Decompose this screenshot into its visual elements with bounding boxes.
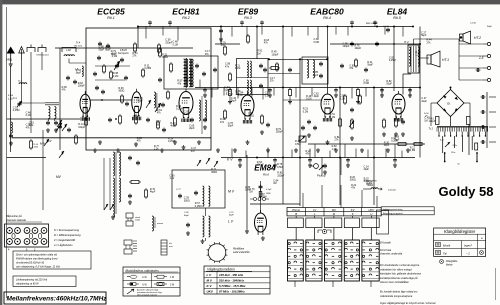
resistor R50b <box>271 67 278 70</box>
svg-text:motståll: motståll <box>388 189 396 192</box>
tube ECC85 triode a <box>80 94 90 113</box>
cap C22 <box>264 68 266 70</box>
antenna dipole <box>7 47 16 54</box>
power transformer Tr1 bar <box>437 126 488 128</box>
svg-text:50pF: 50pF <box>228 125 234 128</box>
IF frequency box <box>4 292 106 304</box>
cap C16 <box>214 68 216 70</box>
resistor R16 <box>170 64 173 71</box>
cap hang top 3 <box>241 21 243 23</box>
ferrite core <box>45 103 59 105</box>
coil L14 <box>113 202 115 217</box>
svg-text:Ferroperm: Ferroperm <box>118 52 129 55</box>
resistor hang 12 <box>357 88 359 90</box>
svg-text:5kpF: 5kpF <box>367 64 373 67</box>
note box rectifier <box>13 276 76 287</box>
wire riser x394 <box>393 27 395 92</box>
wire y144 stubs <box>314 144 316 158</box>
cap C90 <box>260 185 262 187</box>
resistor Rb <box>135 116 138 123</box>
svg-text:0,5M: 0,5M <box>295 143 300 146</box>
svg-text:0,1M: 0,1M <box>235 67 240 70</box>
svg-text:chassiets undersida: chassiets undersida <box>380 253 403 256</box>
svg-text:sedd underifrån: sedd underifrån <box>233 251 250 254</box>
cap C6 <box>107 44 109 46</box>
svg-text:4kpF: 4kpF <box>313 74 319 77</box>
svg-text:0,25M: 0,25M <box>144 67 151 70</box>
svg-text:1M: 1M <box>257 52 260 55</box>
wire texture stubs <box>145 27 147 39</box>
svg-text:100pF: 100pF <box>184 80 191 83</box>
switch stubs <box>295 216 297 218</box>
switch contact KV <box>44 139 49 146</box>
svg-text:a = Lågfrekvens: a = Lågfrekvens <box>54 243 73 247</box>
svg-text:EABC80: EABC80 <box>310 7 344 17</box>
svg-text:~: ~ <box>457 162 460 167</box>
svg-text:0,25M: 0,25M <box>13 109 20 112</box>
tube EF89 <box>241 95 254 116</box>
wire L48 to box <box>68 59 70 64</box>
svg-text:100Ω: 100Ω <box>135 220 140 222</box>
jack2 hatches <box>133 241 137 251</box>
svg-text:HT.2: HT.2 <box>474 36 481 40</box>
info twin box <box>381 207 434 215</box>
ground g296 <box>295 148 297 150</box>
pot R52 <box>299 136 306 142</box>
resistor R8 <box>167 92 170 98</box>
wire x43 drop <box>42 130 44 210</box>
svg-text:Rö.1: Rö.1 <box>107 16 115 20</box>
svg-text:4kpF: 4kpF <box>364 168 370 171</box>
ground fm3 <box>174 140 176 142</box>
FM det coil <box>199 100 201 121</box>
svg-text:100pF: 100pF <box>343 45 350 48</box>
wire antenna drop3 <box>41 52 43 70</box>
svg-text:EF89: EF89 <box>238 7 259 17</box>
switch header table <box>287 208 381 216</box>
svg-text:rörvoltmeter/20 kΩ/Volt /V): rörvoltmeter/20 kΩ/Volt /V) <box>16 262 44 265</box>
svg-text:L.48: L.48 <box>66 49 71 52</box>
cap hang bottom 16 <box>274 158 276 160</box>
resistor R9 <box>229 74 232 80</box>
svg-text:510 kHz - 1640kHz: 510 kHz - 1640kHz <box>219 279 244 283</box>
osc trim arrow <box>146 100 151 108</box>
wire ground bus mid <box>221 157 415 159</box>
MV coil a <box>203 186 204 206</box>
resistor fmC <box>121 96 124 102</box>
switch contact details <box>288 242 290 244</box>
wire left v10 <box>10 66 12 152</box>
wire grid link <box>90 99 131 101</box>
svg-text:0,5mH: 0,5mH <box>120 50 127 52</box>
cap C2 <box>47 121 49 123</box>
svg-text:10kpF: 10kpF <box>78 126 85 129</box>
svg-text:För Användande i schemat angiv: För Användande i schemat angivna <box>380 264 420 267</box>
heater pins EABC80 <box>322 118 324 122</box>
svg-text:KV: KV <box>48 139 52 143</box>
osc coil L24 <box>189 59 191 87</box>
svg-text:Lyktstångsanslutning: Lyktstångsanslutning <box>383 208 403 211</box>
resistor fmF <box>157 122 160 128</box>
wire anode rail <box>195 87 420 89</box>
cap hang bottom 11 <box>335 88 337 90</box>
Tr1 winding ticks <box>436 127 438 131</box>
svg-text:0,25M: 0,25M <box>168 140 175 143</box>
ground g362 <box>361 148 363 150</box>
svg-text:UKV: UKV <box>369 208 375 212</box>
svg-text:Likriktarspänning vid 220: Likriktarspänning vid 220 Volt <box>16 279 47 282</box>
svg-text:1,2k: 1,2k <box>154 148 159 151</box>
resistor Ra <box>85 118 88 125</box>
svg-text:B Kontakt: B Kontakt <box>380 242 391 245</box>
ground el84 <box>395 132 397 134</box>
resistor R3 <box>174 118 177 125</box>
svg-text:5kpF: 5kpF <box>487 26 493 28</box>
phono jack 1 <box>126 213 133 218</box>
bridge diode 3 <box>443 108 446 111</box>
svg-text:Goldy 58: Goldy 58 <box>439 184 494 199</box>
svg-text:100pF: 100pF <box>78 85 85 88</box>
wire riser x327 <box>327 27 329 92</box>
resistor r144a <box>398 143 406 146</box>
LV coil b <box>209 216 211 237</box>
svg-text:250pF: 250pF <box>276 131 283 134</box>
svg-text:2kpF: 2kpF <box>394 138 400 141</box>
cap C13 <box>94 72 96 74</box>
svg-text:KV: KV <box>351 208 355 212</box>
wire Tr1 sec4 <box>471 136 473 150</box>
svg-text:1,2k: 1,2k <box>169 177 174 180</box>
rectifier bridge Gl <box>437 90 464 117</box>
cap C30b <box>129 156 131 158</box>
cap C14 <box>125 76 127 78</box>
svg-text:chassiets baksida: chassiets baksida <box>6 219 26 222</box>
svg-text:50pF: 50pF <box>386 83 392 86</box>
Tr1 pin studs <box>438 132 440 136</box>
svg-text:300Ω: 300Ω <box>248 115 254 118</box>
cap C20 <box>196 64 198 66</box>
svg-text:Ingen?: Ingen? <box>464 244 472 248</box>
svg-text:4kpF: 4kpF <box>314 95 320 98</box>
svg-text:Rö.3: Rö.3 <box>244 16 252 20</box>
svg-text:0,5M: 0,5M <box>245 189 250 192</box>
MV coil b <box>209 186 210 206</box>
cap C33 <box>129 194 131 196</box>
ground ef89 <box>247 140 249 142</box>
wire MV links <box>205 208 207 216</box>
pot R61 <box>351 120 354 128</box>
svg-text:EL84: EL84 <box>387 7 408 17</box>
IF2 coil a <box>307 60 309 78</box>
svg-text:Gl.: Gl. <box>447 102 451 106</box>
tube socket bottom view <box>208 244 226 262</box>
FM tuner box <box>86 28 211 150</box>
cap hang top 4 <box>261 21 263 23</box>
cap hang bottom 18 <box>347 158 349 160</box>
svg-text:länkar: länkar <box>446 264 453 267</box>
ground g162 <box>161 148 163 150</box>
coil L49 <box>11 122 12 133</box>
svg-text:Hålpunkter på: Hålpunkter på <box>6 215 22 218</box>
resistor R43 <box>344 96 347 103</box>
wire IF link2 <box>268 73 300 75</box>
resistor R4 <box>119 116 122 123</box>
svg-text:Tal: Tal <box>443 252 447 256</box>
cap C4 <box>74 80 76 82</box>
resistor R17 <box>224 47 227 54</box>
svg-text:Motståndens mätvärden: Motståndens mätvärden <box>126 268 159 272</box>
svg-text:Tr.1: Tr.1 <box>429 127 434 131</box>
resistor R7 <box>142 70 145 76</box>
resistor R5 <box>110 72 113 78</box>
wire riser x374 <box>373 88 375 206</box>
svg-text:mätvärande kunga analysera: mätvärande kunga analysera <box>380 295 413 298</box>
svg-text:L V: L V <box>228 220 234 224</box>
svg-text:B: B <box>295 212 297 216</box>
svg-text:0,1M: 0,1M <box>113 75 118 78</box>
svg-text:kontaktpunkternas exakta läge: kontaktpunkternas exakta läge på <box>380 277 418 280</box>
svg-text:0,1M: 0,1M <box>306 98 311 101</box>
cap fmB <box>102 90 104 92</box>
svg-text:1,2k: 1,2k <box>415 54 420 57</box>
output transformer Tr2 <box>408 45 419 73</box>
cap hang bottom 17 <box>309 158 311 160</box>
svg-text:5kpF: 5kpF <box>421 34 427 37</box>
svg-text:Musik: Musik <box>443 244 451 248</box>
svg-text:antenn: antenn <box>157 222 163 225</box>
cap C66 <box>351 108 353 110</box>
tube ECH81 <box>179 92 193 115</box>
klangbild note <box>440 260 444 264</box>
svg-text:Tr.4: Tr.4 <box>76 42 81 45</box>
resistor R71 grid <box>383 120 386 127</box>
ferroantenn symbol <box>363 188 371 190</box>
svg-text:0,5M: 0,5M <box>314 41 319 44</box>
wire fm h2 <box>95 79 125 81</box>
wire bridge left <box>431 102 437 104</box>
wire bridge bottom <box>450 117 452 127</box>
svg-text:K: K <box>352 212 354 216</box>
svg-text:4kpF: 4kpF <box>229 215 234 217</box>
svg-text:En kontakt ändras läge mätad o: En kontakt ändras läge mätad om <box>380 291 417 294</box>
wavelength table <box>204 266 270 294</box>
resistor R37 <box>224 111 227 118</box>
cap C21 <box>203 72 205 74</box>
junction dots <box>137 26 139 28</box>
antenna bracket 2 <box>38 45 46 53</box>
coil L5 <box>82 66 83 76</box>
cap C18 <box>98 56 100 58</box>
page edge line right-bottom <box>495 268 497 300</box>
ground coil col <box>112 215 114 217</box>
ground g318 <box>317 148 319 150</box>
svg-text:ECC85: ECC85 <box>97 7 125 17</box>
svg-text:D = Differensspannung: D = Differensspannung <box>54 233 81 237</box>
svg-text:Rö.6: Rö.6 <box>263 172 269 176</box>
svg-text:0,1M: 0,1M <box>112 55 117 58</box>
wire bottom bus <box>250 203 300 205</box>
svg-text:mätvärden bör vilken mängd: mätvärden bör vilken mängd <box>380 268 412 271</box>
IF1 coil a <box>247 61 248 78</box>
svg-text:0,1M: 0,1M <box>26 114 31 117</box>
ground g118 <box>117 148 119 150</box>
switch arrows above MV <box>197 160 201 166</box>
coil L11 <box>119 152 121 176</box>
wire antenna drop2 <box>30 52 32 133</box>
tube EL84 <box>392 94 405 114</box>
diode caps <box>308 120 310 122</box>
wire riser x221 <box>220 27 222 45</box>
svg-text:300Ω: 300Ω <box>350 179 356 182</box>
trimmer C7 <box>114 61 120 70</box>
cap C19 <box>121 58 123 60</box>
svg-text:Våglängdsområden: Våglängdsområden <box>207 268 235 272</box>
heater pins EL84 <box>393 118 395 122</box>
svg-text:300Ω: 300Ω <box>211 171 217 174</box>
IF1 coil b <box>247 80 248 94</box>
cap hang bottom 9 <box>269 88 271 90</box>
IF1 box <box>237 59 269 95</box>
wire EM84 feeds <box>246 155 248 229</box>
filter cap C141b <box>467 117 471 125</box>
svg-text:Mellanfrekvens:460kHz/10,7MHz: Mellanfrekvens:460kHz/10,7MHz <box>7 296 108 303</box>
cap fmG <box>163 128 165 130</box>
resistor legend table <box>123 267 180 296</box>
svg-text:UKW-antenn: UKW-antenn <box>37 54 50 57</box>
wire ferrite drop <box>48 119 50 122</box>
svg-text:4kpF: 4kpF <box>170 125 176 128</box>
switch feed stubs <box>302 193 304 208</box>
resistor R50 <box>158 45 161 52</box>
svg-text:ECH81: ECH81 <box>172 7 200 17</box>
ground fm1 <box>99 140 101 142</box>
switch contact boxes <box>288 240 304 281</box>
svg-text:0,25M: 0,25M <box>389 59 396 62</box>
phono jack 2 <box>124 240 132 245</box>
svg-text:skissen över kontaktlådan: skissen över kontaktlådan <box>380 281 409 284</box>
wire EL84 plate <box>402 74 404 95</box>
osc coil L23 <box>184 59 186 87</box>
ground g235 <box>234 148 236 150</box>
tuning cap C17 <box>56 123 62 131</box>
ground g218 <box>217 148 219 150</box>
ground fm4 <box>198 140 200 142</box>
resistor hang 8 <box>229 88 231 90</box>
svg-text:0,5M: 0,5M <box>410 149 415 152</box>
svg-text:Phono: Phono <box>292 208 300 212</box>
svg-text:Ström- och spänningsvärden mät: Ström- och spänningsvärden mätta vid <box>16 254 58 257</box>
cap hang bottom 7 <box>204 88 206 90</box>
wire antenna drop1 <box>21 60 23 103</box>
cap hang top 5 <box>351 21 353 23</box>
svg-text:100pF: 100pF <box>257 164 264 167</box>
svg-text:1M: 1M <box>273 182 276 185</box>
svg-text:C.77: C.77 <box>176 189 181 191</box>
svg-text:1MΩ: 1MΩ <box>266 193 271 195</box>
resistor R2 <box>159 49 162 56</box>
wire right v469 <box>468 125 470 156</box>
resistor R6 <box>103 66 106 72</box>
wire y44 seg <box>215 43 240 45</box>
ferrite coil L3 <box>55 107 57 119</box>
cap C5 <box>99 42 101 44</box>
cap fmE <box>147 118 149 120</box>
svg-text:0,25M: 0,25M <box>176 108 183 111</box>
terminal a3 <box>487 66 490 69</box>
cap C56 <box>220 29 222 31</box>
wire fm h1 <box>95 65 130 67</box>
ground fm2 <box>135 142 137 144</box>
resistor R31 <box>145 190 148 197</box>
svg-text:C.145: C.145 <box>470 23 477 25</box>
mains pin 1 <box>444 153 446 162</box>
tube EABC80 <box>321 94 334 114</box>
LV coil a <box>203 216 205 237</box>
bridge diode 4 <box>455 108 458 111</box>
svg-text:4 = Gegentakt/AM: 4 = Gegentakt/AM <box>54 238 76 242</box>
svg-text:1M: 1M <box>424 119 427 122</box>
terminal a2 <box>487 54 490 57</box>
svg-text:Tr.2: Tr.2 <box>404 40 409 44</box>
switch middle boxes <box>288 218 304 228</box>
svg-text:2kpF: 2kpF <box>189 127 195 130</box>
svg-text:känslighet här, gällande decib: känslighet här, gällande decibelmann <box>380 273 422 276</box>
IF2 coil b <box>313 60 315 78</box>
bridge diode 2 <box>455 97 458 100</box>
choke Dr1 <box>19 83 27 84</box>
svg-text:¼ W: ¼ W <box>142 276 148 279</box>
cap C30 <box>204 118 206 120</box>
cap fmA <box>96 86 98 88</box>
switch box tails <box>294 281 296 287</box>
cap C11 <box>191 118 193 120</box>
heater pins ECH81 <box>181 119 183 123</box>
coil L12 <box>113 178 115 202</box>
trimmer C1 <box>19 102 21 104</box>
tube EM84 <box>255 213 267 232</box>
note box measurements <box>13 251 91 269</box>
svg-text:87 MHz - 100,5MHz: 87 MHz - 100,5MHz <box>219 290 245 294</box>
resistor R30 <box>131 181 139 184</box>
svg-text:HT.1: HT.1 <box>442 58 449 62</box>
wire Tr2 top <box>413 39 415 45</box>
IF2 box <box>302 57 328 84</box>
speaker HT1 <box>427 55 431 64</box>
switch F symbol <box>318 230 331 233</box>
heater pins EF89 <box>242 120 244 124</box>
svg-text:5kpF: 5kpF <box>76 72 82 75</box>
cap C25 <box>68 128 70 130</box>
cap C146 <box>387 28 389 30</box>
cap C23 <box>289 68 291 70</box>
coil L48 <box>62 48 76 53</box>
svg-text:C.1: C.1 <box>13 97 17 100</box>
svg-text:0,25M: 0,25M <box>195 205 202 208</box>
svg-text:300Ω: 300Ω <box>367 184 373 187</box>
svg-text:300Ω: 300Ω <box>184 199 190 202</box>
svg-text:~ 2: ~ 2 <box>466 252 470 256</box>
wire riser x300 <box>299 59 301 206</box>
resistor R42 <box>355 60 358 66</box>
cap C24 <box>341 64 343 66</box>
resistor R41 <box>339 119 342 126</box>
IF2 caps <box>320 62 322 64</box>
svg-text:Klangbildregister: Klangbildregister <box>444 229 476 234</box>
wire rail y144 <box>308 143 425 145</box>
cap hang top 1 <box>149 21 151 23</box>
mains pin 2 <box>476 153 478 162</box>
trimmer C9 <box>155 103 161 112</box>
